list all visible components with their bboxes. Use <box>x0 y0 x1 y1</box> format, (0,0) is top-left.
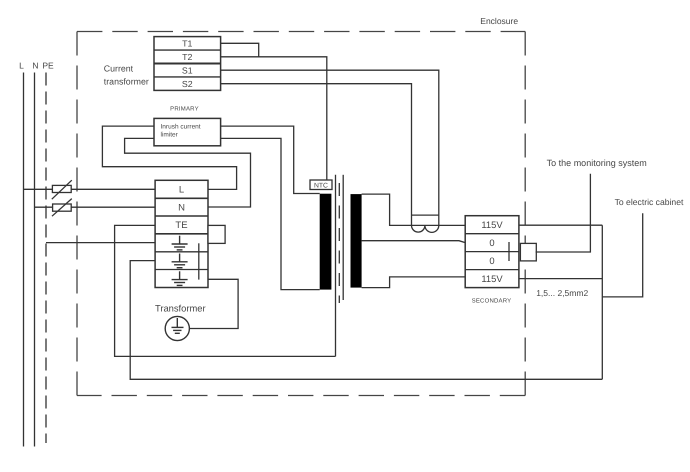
wire inrush to primary bottom <box>221 138 320 289</box>
node L supply line <box>23 73 25 447</box>
svg-text:To the monitoring system: To the monitoring system <box>547 158 647 168</box>
wire T1 <box>221 43 259 57</box>
wire secondary top to 115V <box>362 194 466 225</box>
enclosure dashed border <box>77 32 525 396</box>
wire rung between S1 S2 <box>412 214 439 216</box>
NTC thermistor box <box>310 180 332 190</box>
wire 115V bottom to bus <box>519 278 602 280</box>
wire N to fuse to terminal N <box>35 206 156 208</box>
fuse F2 <box>52 199 72 217</box>
transformer core line right <box>342 175 344 300</box>
svg-text:S2: S2 <box>182 79 193 89</box>
svg-text:SECONDARY: SECONDARY <box>472 297 512 304</box>
svg-text:Enclosure: Enclosure <box>480 16 518 26</box>
wire to monitoring system <box>536 174 591 252</box>
wire earth cell to transformer earth circle <box>189 279 238 328</box>
current clamp loops <box>412 225 439 232</box>
core screen dashed <box>338 183 340 303</box>
transformer primary winding bar <box>320 194 332 290</box>
wire secondary mid tap to 0 <box>362 241 466 243</box>
svg-text:T1: T1 <box>182 39 192 49</box>
wire secondary bottom to 115V <box>362 277 466 288</box>
wire S1 <box>221 70 439 225</box>
svg-text:Transformer: Transformer <box>155 302 206 313</box>
svg-text:transformer: transformer <box>104 77 149 87</box>
svg-text:L: L <box>179 185 184 196</box>
ground symbol in cell 6 <box>172 271 188 285</box>
inrush current limiter box <box>154 118 221 145</box>
svg-text:0: 0 <box>489 237 494 248</box>
small link box at TE <box>208 225 225 243</box>
ground symbol in cell 4 <box>172 236 188 250</box>
wire earth cell to bus bottom <box>130 261 602 380</box>
wire inrush to primary top <box>221 126 320 193</box>
svg-text:115V: 115V <box>481 273 503 284</box>
svg-text:N: N <box>178 202 185 213</box>
svg-text:0: 0 <box>489 255 494 266</box>
svg-text:PE: PE <box>42 61 54 71</box>
jumper line earth cells <box>198 243 200 279</box>
svg-text:NTC: NTC <box>314 182 328 189</box>
svg-text:PRIMARY: PRIMARY <box>170 106 199 113</box>
wire to electric cabinet <box>602 213 642 297</box>
wire S2 <box>221 84 412 226</box>
node N supply line <box>34 73 36 447</box>
wire inrush to terminal L <box>102 126 236 189</box>
wire L to fuse to terminal L <box>24 188 156 190</box>
svg-text:Current: Current <box>104 63 134 73</box>
svg-text:L: L <box>19 61 24 71</box>
wire inrush to terminal N <box>125 138 251 207</box>
svg-text:To electric cabinet: To electric cabinet <box>615 197 684 207</box>
svg-text:S1: S1 <box>182 65 193 75</box>
terminal block T1 T2 S1 S2 <box>154 37 221 91</box>
ground symbol in cell 5 <box>172 254 188 268</box>
fuse F1 <box>52 180 72 199</box>
wire 115V top to bus <box>519 224 602 226</box>
transformer core line left <box>335 175 337 357</box>
svg-text:TE: TE <box>175 220 187 231</box>
bus vertical right <box>601 225 603 379</box>
transformer earth circle <box>165 316 189 340</box>
svg-text:Inrush current: Inrush current <box>161 123 201 130</box>
transformer secondary winding bar <box>351 194 362 288</box>
terminal block L N TE earth <box>155 180 208 287</box>
wire TE to core screen <box>115 225 336 356</box>
wire PE to terminal earth <box>46 242 155 244</box>
small link box at secondary <box>520 243 536 261</box>
svg-text:T2: T2 <box>182 52 192 62</box>
svg-text:115V: 115V <box>481 219 503 230</box>
svg-text:1,5... 2,5mm2: 1,5... 2,5mm2 <box>536 288 588 298</box>
jumper line 0-0 <box>508 242 510 261</box>
terminal block secondary 115V 0 0 115V <box>465 216 519 288</box>
node PE supply line <box>45 73 47 444</box>
svg-text:limiter: limiter <box>161 132 179 139</box>
svg-text:N: N <box>32 61 38 71</box>
wire T2 to NTC <box>221 57 327 180</box>
